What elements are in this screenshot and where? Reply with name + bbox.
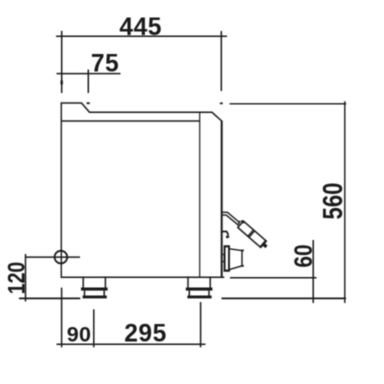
svg-text:90: 90	[67, 323, 92, 347]
svg-text:295: 295	[124, 320, 167, 347]
svg-text:445: 445	[119, 14, 162, 41]
svg-text:60: 60	[289, 244, 317, 267]
svg-text:560: 560	[317, 183, 348, 220]
svg-text:75: 75	[91, 50, 119, 77]
svg-text:120: 120	[3, 262, 30, 295]
